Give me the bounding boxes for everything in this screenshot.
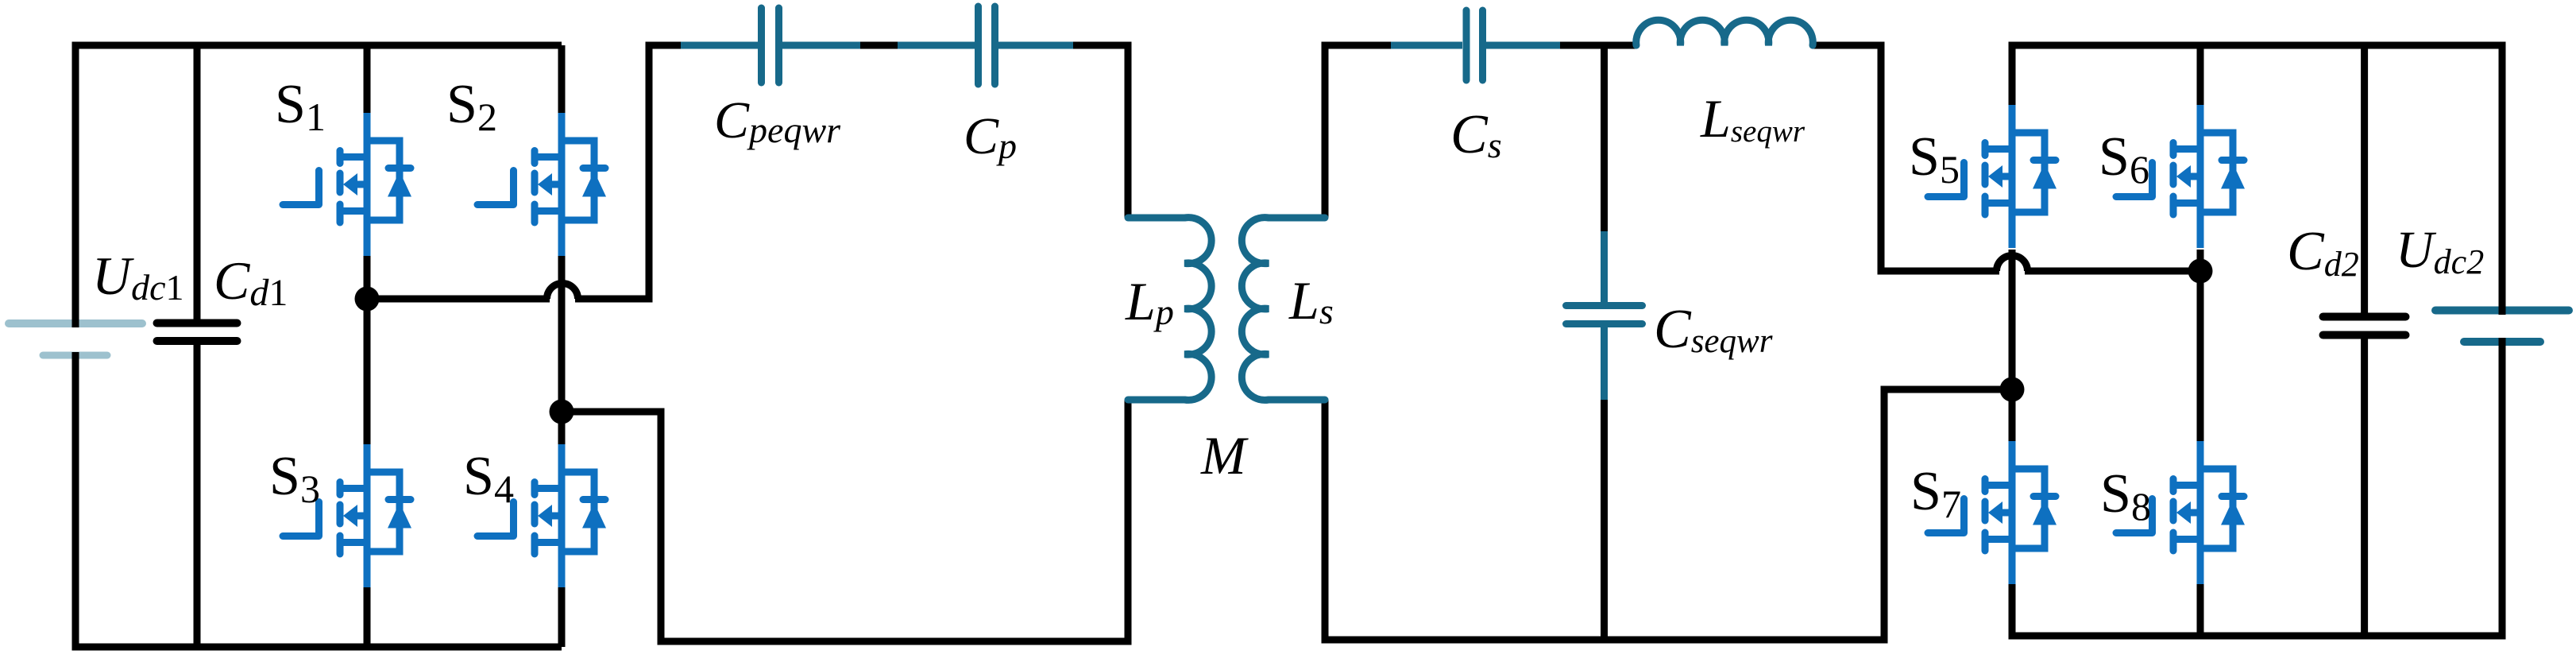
wire: S6-S8 mid segment through node D (2197, 250, 2204, 443)
capacitor C_peqwr (681, 8, 860, 83)
wire: S4 source stub (558, 586, 566, 647)
inductor L_seqwr (1636, 20, 1813, 45)
node A (355, 287, 380, 312)
wire: after L_seqwr corner down to AC node level (1812, 45, 1999, 271)
wire: between C_s and C_seqwr T and L_seqwr (1559, 42, 1637, 49)
hop over S2 leg (547, 284, 578, 300)
inductor Ls (1242, 218, 1325, 401)
wire: C_d2 branch upper (2361, 45, 2368, 314)
transistor Q S1 (283, 113, 411, 256)
transistor Q S5 (1928, 105, 2057, 248)
svg-text:Lseqwr: Lseqwr (1700, 88, 1806, 149)
wire: S1 drain stub (364, 45, 371, 114)
transistor Q S8 (2116, 441, 2245, 584)
wire: S7 source stub + right bridge bottom rail + right leg from U_dc2 (2012, 338, 2502, 636)
transistor Q S2 (477, 113, 606, 256)
wire: S3 source stub (364, 586, 371, 647)
transistor Q S6 (2116, 105, 2245, 248)
wire: node A to hop (367, 296, 550, 303)
wire: top path between C_peqwr and C_p (859, 42, 898, 49)
svg-text:Cd1: Cd1 (214, 250, 288, 314)
wire: left leg bottom + left bridge bottom rail (75, 352, 562, 647)
battery U_dc1 (9, 323, 142, 355)
svg-text:Udc1: Udc1 (92, 246, 184, 308)
wire: S2 drain stub (558, 45, 566, 114)
svg-text:Cd2: Cd2 (2287, 221, 2359, 284)
wire: secondary bottom loop (1325, 389, 2012, 640)
wire: hop to node D (2025, 268, 2200, 275)
capacitor C_d1 (157, 323, 238, 342)
transistor Q S7 (1928, 441, 2057, 584)
wire: left leg top + left bridge top rail (75, 45, 562, 327)
wire: C_seqwr branch top black (1601, 45, 1608, 233)
wire: S1-S3 mid segment through node A (364, 254, 371, 446)
inductor Lp (1128, 218, 1211, 401)
node D (2188, 259, 2213, 284)
capacitor C_d2 (2323, 317, 2406, 335)
svg-text:Cs: Cs (1450, 104, 1502, 165)
svg-text:S5: S5 (1909, 126, 1960, 192)
svg-text:S4: S4 (463, 446, 514, 511)
wire: S6 drain stub (2197, 45, 2204, 106)
svg-text:S6: S6 (2099, 126, 2149, 192)
wire: S5-S7 mid segment through node C (2009, 250, 2016, 443)
svg-text:Udc2: Udc2 (2396, 221, 2484, 281)
wire: Ls top leg corner to C_s (1325, 45, 1392, 218)
svg-text:Ls: Ls (1288, 270, 1334, 331)
node C (2000, 378, 2025, 402)
svg-text:S3: S3 (269, 446, 320, 511)
svg-text:S7: S7 (1910, 461, 1961, 526)
wire: node B loop to primary bottom (562, 400, 1128, 641)
capacitor C_p (898, 6, 1073, 84)
capacitor C_seqwr (1566, 231, 1643, 400)
svg-text:Cp: Cp (964, 107, 1017, 166)
wire: S8 source stub (2197, 583, 2204, 636)
capacitor C_s (1391, 10, 1560, 80)
svg-text:Lp: Lp (1125, 271, 1174, 332)
wire: hop to riser up to top path (575, 45, 682, 299)
battery U_dc2 (2435, 311, 2569, 343)
svg-text:S2: S2 (446, 74, 497, 139)
wire: C_d1 branch lower (194, 343, 201, 647)
wire: top path after C_p, corner down to Lp (1072, 45, 1128, 218)
transistor Q S4 (477, 444, 606, 587)
node B (550, 400, 574, 424)
wire: S5 leg top corner + right bridge top rail + right leg to U_dc2 (2012, 45, 2502, 315)
wire: C_d1 branch upper (194, 45, 201, 320)
wire: S2-S4 mid segment through node B (558, 254, 566, 446)
wire: C_seqwr branch bottom black (1601, 399, 1608, 641)
svg-text:M: M (1200, 425, 1249, 486)
hop over S5 leg (1997, 256, 2028, 272)
svg-text:S1: S1 (275, 74, 326, 139)
wire: C_d2 branch lower (2361, 338, 2368, 636)
transistor Q S3 (283, 444, 411, 587)
svg-text:S8: S8 (2100, 463, 2151, 529)
svg-text:Cseqwr: Cseqwr (1654, 299, 1773, 360)
svg-text:Cpeqwr: Cpeqwr (714, 91, 841, 150)
